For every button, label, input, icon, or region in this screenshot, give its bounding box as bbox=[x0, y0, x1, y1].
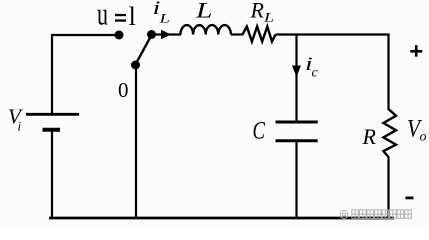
svg-text:0: 0 bbox=[118, 78, 129, 102]
node switch contact u=1 bbox=[115, 31, 124, 40]
svg-text:c: c bbox=[312, 66, 319, 81]
capacitor C top plate bbox=[276, 121, 318, 124]
svg-text:R: R bbox=[362, 124, 377, 149]
label + bbox=[410, 50, 422, 53]
label - terminal bbox=[406, 197, 414, 200]
current arrow iL bbox=[161, 30, 171, 39]
resistor RL bbox=[243, 27, 276, 42]
svg-text:C: C bbox=[253, 118, 266, 145]
capacitor C bottom plate bbox=[276, 139, 318, 142]
svg-text:R: R bbox=[250, 0, 265, 23]
inductor L bbox=[181, 25, 231, 34]
wire top-left horizontal bbox=[51, 34, 119, 36]
wire switch contact 0 to bottom rail bbox=[135, 65, 137, 218]
wire right vertical top bbox=[387, 34, 389, 110]
svg-text:l: l bbox=[129, 2, 136, 31]
battery Vi long plate bbox=[26, 113, 79, 116]
wire node to capacitor bbox=[295, 35, 297, 122]
battery Vi short plate bbox=[43, 128, 61, 132]
watermark bbox=[340, 210, 411, 219]
svg-text:u: u bbox=[97, 0, 108, 31]
svg-text:L: L bbox=[195, 0, 213, 23]
wire inductor to RL bbox=[231, 33, 243, 35]
node switch contact 0 bbox=[131, 61, 140, 70]
svg-text:o: o bbox=[420, 130, 427, 145]
current arrow ic bbox=[292, 66, 301, 78]
wire R to bottom rail bbox=[387, 156, 389, 218]
wire left vertical to battery bbox=[51, 34, 53, 113]
node switch common bbox=[147, 30, 156, 39]
wire capacitor to bottom rail bbox=[295, 141, 297, 218]
svg-text:L: L bbox=[158, 11, 170, 25]
wire battery to bottom rail bbox=[51, 131, 53, 218]
bottom rail wire bbox=[49, 217, 394, 220]
wire common node to inductor bbox=[152, 33, 182, 35]
resistor R bbox=[383, 109, 396, 157]
wire RL to top-right corner bbox=[276, 33, 390, 35]
svg-text:L: L bbox=[263, 11, 275, 25]
svg-text:i: i bbox=[18, 119, 22, 134]
switch arm bbox=[136, 36, 151, 64]
